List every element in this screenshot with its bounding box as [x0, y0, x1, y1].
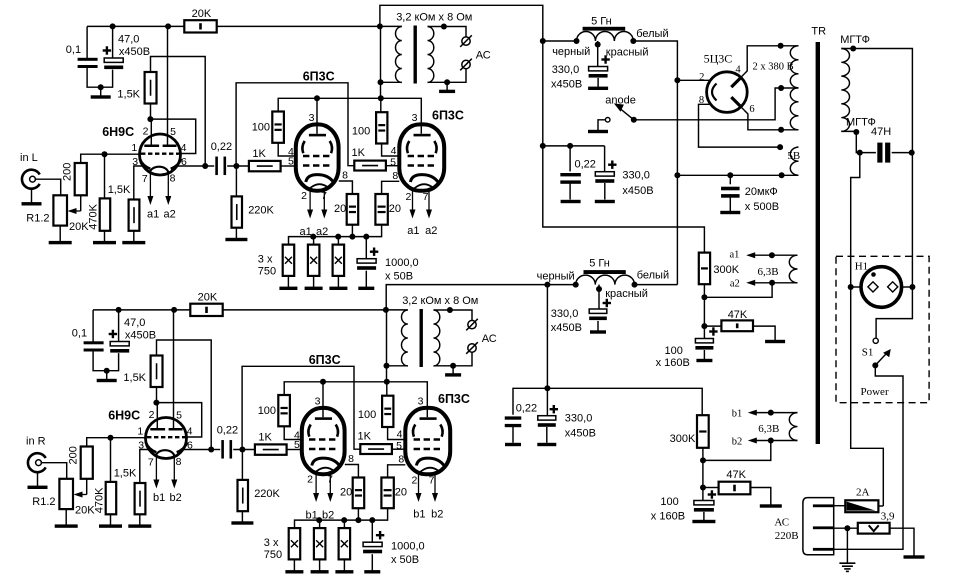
ground 470K L — [93, 241, 116, 244]
6П3С left L heater lead 7 — [323, 191, 325, 213]
svg-text:220K: 220K — [248, 205, 274, 217]
ground pot R — [55, 524, 78, 527]
junction coupling in L — [202, 163, 208, 169]
6П3С right L control grid dashed — [408, 164, 437, 167]
wire 0,22 psu1 top — [569, 146, 571, 172]
6П3С left L heater arc — [310, 184, 329, 188]
svg-text:330,0: 330,0 — [565, 412, 593, 424]
resistor 100 left L — [272, 112, 284, 143]
svg-text:b2: b2 — [732, 436, 743, 447]
6П3С right R anode side arcs — [413, 425, 415, 437]
svg-text:330,0: 330,0 — [552, 64, 580, 76]
wire B+ rail R — [93, 309, 190, 311]
svg-text:R1.2: R1.2 — [32, 496, 55, 508]
wire а2 to bias node — [704, 283, 772, 298]
svg-text:8: 8 — [348, 453, 354, 465]
wire 330 psu4 bottom — [546, 427, 548, 443]
wire 1.5K cathode to ground L — [133, 231, 135, 243]
svg-text:черный: черный — [552, 46, 590, 58]
svg-text:3,9: 3,9 — [881, 511, 895, 523]
wire OT secondary bottom R — [434, 352, 473, 366]
wire 100 right top L — [380, 98, 382, 112]
6П3С right R anode plate — [420, 417, 437, 420]
svg-text:1,5K: 1,5K — [108, 184, 131, 196]
6Н9С L anode plates — [144, 145, 159, 148]
svg-text:2: 2 — [307, 474, 313, 486]
junction B+ upper at caps — [540, 143, 546, 149]
svg-text:47,0: 47,0 — [118, 33, 139, 45]
junction cathode bus x338 R — [341, 517, 347, 523]
svg-text:7: 7 — [429, 474, 435, 486]
resistor 750 #2 L — [308, 245, 320, 276]
junction choke1 red tap — [595, 42, 601, 48]
wire pin8 5Ц3С — [699, 104, 781, 147]
resistor 20 right R — [381, 478, 393, 509]
svg-text:х 500В: х 500В — [745, 201, 779, 213]
svg-text:АС: АС — [476, 49, 491, 61]
wire OT secondary ground stem L — [446, 82, 448, 90]
wire pin2 5Ц3С — [677, 79, 710, 81]
resistor 1K right R — [360, 444, 392, 454]
junction lamp left — [848, 284, 854, 290]
choke2 core bar — [584, 270, 626, 274]
terminal choke1 black — [574, 38, 580, 44]
svg-text:3,2 кОм х 8 Ом: 3,2 кОм х 8 Ом — [402, 295, 478, 307]
wire 220K ground L — [235, 228, 237, 240]
junction grid node R — [108, 435, 114, 441]
6Н9С R grids dashed — [147, 436, 186, 438]
speaker terminal АС2 R — [468, 344, 476, 352]
wire anode switch to HV center tap — [634, 88, 799, 120]
anode switch contact — [605, 118, 610, 123]
svg-text:20K: 20K — [198, 292, 218, 304]
resistor 300K lower — [697, 415, 709, 448]
wire 20 left to bus R — [357, 508, 359, 520]
wire 100 left to screen R — [284, 426, 302, 439]
capacitor 0,22 psu2 — [505, 416, 522, 419]
resistor 47K upper — [721, 320, 753, 331]
triode tube 6Н9С L envelope — [140, 134, 181, 175]
wire cathode left to 20 R — [345, 465, 359, 478]
junction OT secondary ground R — [450, 363, 456, 369]
6П3С left L screen grid dashed — [303, 155, 332, 158]
wire choke1 red tap — [597, 41, 599, 67]
svg-text:5В: 5В — [787, 150, 800, 162]
OT core R — [420, 309, 423, 367]
resistor 1,5K anode L — [145, 72, 157, 104]
resistor 200 R — [81, 447, 93, 479]
wire 0,22 to node L — [227, 165, 249, 167]
plug pin 3 — [813, 548, 835, 551]
svg-text:4: 4 — [391, 145, 397, 157]
OT primary winding R — [402, 310, 408, 366]
wire 47K upper left — [704, 325, 721, 327]
wire 0,22 to node R — [233, 449, 255, 451]
svg-text:8: 8 — [342, 170, 348, 182]
6П3С left R anode side arcs — [308, 425, 310, 437]
svg-text:5: 5 — [390, 156, 396, 168]
junction cathode bus x366 L — [363, 234, 369, 240]
wire 100 left to screen L — [278, 143, 296, 156]
svg-text:b1: b1 — [732, 408, 743, 419]
wire 0,22 psu2 bottom — [512, 425, 514, 442]
svg-text:x450В: x450В — [622, 185, 653, 197]
wire 330 psu3 ground stem — [597, 321, 599, 331]
wire pot R bottom to ground — [65, 509, 67, 526]
ground 0,22 psu1 — [561, 200, 581, 203]
wire pin2 chassis stem — [846, 528, 848, 563]
svg-text:x450В: x450В — [551, 322, 582, 334]
svg-text:1000,0: 1000,0 — [385, 257, 419, 269]
capacitor 0,22 psu1 — [560, 173, 581, 176]
junction cathode bus x352 L — [349, 234, 355, 240]
wire rail to 0,1 cap R — [92, 310, 94, 343]
wire choke2 red tap — [598, 285, 600, 309]
6Н9С R anode plates — [150, 428, 165, 431]
junction pin2 node — [844, 525, 850, 531]
junction OT primary bottom L — [378, 79, 384, 85]
junction anode switch — [631, 117, 637, 123]
wire 300K upper bottom — [703, 284, 705, 326]
ground 1000 cap R — [364, 570, 380, 573]
ground 3,9 — [904, 555, 925, 558]
junction rail pin5 L — [165, 23, 171, 29]
wire pin6 5Ц3С to HV bottom — [744, 110, 798, 130]
wire 20мкФ bottom — [729, 194, 731, 211]
svg-text:a2: a2 — [730, 278, 740, 289]
svg-text:x450В: x450В — [551, 79, 582, 91]
svg-text:200: 200 — [62, 163, 74, 181]
wire grid node to pin1 L — [105, 153, 140, 155]
6П3С right L screen grid dashed — [408, 155, 437, 158]
speaker terminal АС1 L — [462, 37, 470, 45]
svg-text:2: 2 — [699, 72, 704, 83]
svg-text:100: 100 — [660, 496, 678, 508]
wire anode bus L — [278, 98, 421, 134]
chassis ground hatched — [839, 562, 855, 564]
terminal b2 — [768, 438, 774, 444]
svg-text:470K: 470K — [94, 487, 106, 513]
svg-text:S1: S1 — [862, 347, 874, 359]
svg-text:2: 2 — [405, 191, 411, 203]
svg-text:7: 7 — [142, 173, 148, 185]
junction OT secondary ground L — [444, 79, 450, 85]
wire 47K lower left — [703, 487, 719, 489]
junction cathode bus x313 R — [316, 517, 322, 523]
svg-text:4: 4 — [187, 425, 193, 437]
6П3С left R heater arc — [316, 468, 335, 472]
terminal choke1 white — [630, 38, 636, 44]
junction OT secondary top L — [441, 24, 447, 30]
junction rail cap R — [116, 307, 122, 313]
6П3С left L anode side arcs — [302, 141, 304, 153]
wire OT vertical R — [386, 310, 388, 382]
svg-text:АС: АС — [774, 517, 789, 529]
junction rail cap L — [110, 23, 116, 29]
wire fuse left lead — [835, 505, 846, 507]
ground anode switch — [588, 130, 608, 133]
ground caps L — [91, 95, 111, 98]
capacitor 0,22 coupling R — [221, 440, 224, 459]
resistor 470K R — [106, 482, 117, 514]
junction bias lower b — [700, 485, 706, 491]
svg-text:3 x: 3 x — [258, 253, 273, 265]
svg-text:330,0: 330,0 — [622, 170, 650, 182]
resistor 750 #2 R — [314, 528, 326, 559]
resistor 1,5K anode R — [151, 356, 163, 388]
svg-text:47,0: 47,0 — [124, 317, 145, 329]
resistor 100 right R — [382, 396, 393, 427]
svg-text:a1: a1 — [407, 225, 419, 237]
ground 1.5K cathode L — [122, 241, 145, 244]
choke1 5Гн winding — [577, 31, 634, 41]
svg-text:20: 20 — [340, 487, 352, 499]
6П3С right L anode side arcs — [407, 141, 409, 153]
capacitor 100 х160В lower — [694, 501, 714, 505]
svg-text:470K: 470K — [88, 203, 100, 229]
terminal primary top — [850, 46, 856, 52]
capacitor 100 х160В upper — [695, 339, 713, 343]
pentode tube 6П3С left R envelope — [302, 408, 345, 474]
wire 330 psu4 top — [546, 388, 548, 415]
wire 1000 cap bottom L — [365, 271, 367, 287]
pentode tube 6П3С right L envelope — [399, 124, 444, 190]
junction B+ lower at choke — [544, 282, 550, 288]
terminal b1 — [768, 410, 774, 416]
fuse 2А — [845, 500, 878, 512]
resistor 1K right L — [354, 161, 386, 171]
svg-text:100: 100 — [252, 122, 270, 134]
capacitor 47,0 x450В L — [104, 58, 123, 62]
wire 100 right to screen L — [382, 144, 400, 157]
ground 220K L — [225, 238, 247, 241]
junction rail OT R — [383, 307, 389, 313]
wire OT primary top lead R — [386, 309, 408, 311]
svg-text:x450В: x450В — [119, 46, 150, 58]
wire OT vertical L — [380, 26, 382, 98]
wire choke2 feed — [547, 284, 575, 286]
wire 300K lower bottom — [702, 448, 704, 501]
6Н9С L cathodes — [140, 159, 151, 169]
svg-text:7: 7 — [423, 191, 429, 203]
wire 200 bottom to wiper R — [86, 479, 88, 495]
capacitor 47Н — [877, 143, 882, 163]
wire jack L ground stem — [31, 189, 33, 204]
svg-text:белый: белый — [637, 270, 669, 282]
ground 330 psu3 — [590, 330, 606, 333]
wire 1.5K anode top to coupling L — [151, 57, 206, 167]
svg-text:3 x: 3 x — [264, 537, 279, 549]
wire OT secondary top L — [428, 27, 467, 37]
wire caps ground stem L — [100, 87, 102, 97]
wire 1K right to pin5 R — [392, 448, 406, 450]
svg-text:x450В: x450В — [125, 329, 156, 341]
6П3С left R cathode arc — [312, 458, 340, 466]
terminal 5В bottom — [779, 172, 785, 178]
svg-text:0,22: 0,22 — [516, 402, 537, 414]
anode switch arm with arrow — [619, 107, 634, 120]
svg-text:0,22: 0,22 — [211, 141, 232, 153]
6П3С left L control grid dashed — [303, 164, 332, 167]
wire 20 right to bus R — [295, 508, 388, 528]
junction rectifier B+ pin2 — [674, 77, 680, 83]
wire rail to 47,0 cap R — [118, 310, 120, 342]
ground 220K R — [231, 521, 253, 524]
svg-text:МГТФ: МГТФ — [840, 34, 870, 46]
wire anode1 to grid2 R — [156, 403, 201, 437]
ground 330 psu2 — [595, 200, 615, 203]
wire 5В bottom lead — [677, 174, 798, 176]
resistor 220K R — [238, 480, 249, 511]
6П3С right L heater lead 7 — [428, 191, 430, 213]
wire 47K lower right — [750, 488, 770, 505]
6Н9С R heater lead pin7 — [155, 457, 157, 483]
6Н9С L heater lead pin8 — [167, 173, 169, 199]
wire 330 psu2 top — [604, 146, 606, 172]
svg-text:АС: АС — [482, 333, 497, 345]
OT core L — [414, 26, 417, 84]
wire jack R to pot — [41, 463, 66, 479]
wire 20мкФ top — [729, 175, 731, 184]
svg-text:in L: in L — [20, 152, 38, 164]
wire left anode drop R — [322, 382, 324, 418]
svg-text:3: 3 — [138, 439, 144, 451]
junction anode1 node R — [153, 400, 159, 406]
ground 750 #2 R — [311, 570, 329, 573]
wire grid node down L — [104, 154, 106, 198]
ground jack L — [22, 202, 42, 205]
terminal HV center tap — [778, 85, 784, 91]
wire coupling to right tube R — [242, 366, 360, 449]
wire 1.5K anode top to coupling R — [157, 340, 212, 450]
svg-text:5 Гн: 5 Гн — [591, 15, 612, 27]
junction anode bus OT R — [384, 379, 390, 385]
junction psu caps upper — [567, 143, 573, 149]
svg-text:3: 3 — [418, 395, 424, 407]
wire anode contact to ground — [598, 120, 605, 131]
ground 330 psu1 — [588, 87, 608, 90]
terminal choke2 black — [573, 282, 579, 288]
junction B+ lower at caps — [544, 385, 550, 391]
wire rail to 0,1 cap L — [86, 26, 88, 59]
ground 750 #1 R — [285, 570, 303, 573]
wire 750 #1 bottom L — [287, 276, 289, 287]
ground 330 psu4 — [537, 443, 556, 446]
wire а2 heater line — [751, 282, 797, 284]
ground 100 cap lower — [692, 520, 715, 523]
svg-text:8: 8 — [170, 172, 176, 184]
wire OT secondary ground stem R — [452, 366, 454, 374]
junction OT secondary top R — [447, 307, 453, 313]
svg-text:2А: 2А — [856, 487, 870, 499]
junction 47Н right — [909, 150, 915, 156]
svg-text:х 160В: х 160В — [656, 357, 690, 369]
capacitor 0,1 L — [78, 58, 98, 61]
TR primary МГТФ winding — [841, 49, 849, 132]
ground pot L — [49, 241, 72, 244]
junction cathode bus x366 R — [369, 517, 375, 523]
svg-text:3: 3 — [315, 396, 321, 408]
svg-text:x 50В: x 50В — [385, 270, 413, 282]
svg-text:6Н9С: 6Н9С — [108, 409, 140, 423]
6П3С left L heater lead 2 — [309, 191, 311, 213]
RCA input jack in L — [22, 170, 40, 189]
6Н9С R cathodes — [146, 442, 157, 452]
wire lamp left down to fuse — [851, 287, 884, 506]
wire OT primary top lead L — [380, 25, 402, 27]
junction cathode bus x352 R — [355, 517, 361, 523]
wire 1K to pin5 left 6П3С R — [287, 449, 302, 451]
resistor 20K rail L — [184, 20, 216, 32]
junction after coupling L — [233, 163, 239, 169]
wire 100 cap upper stem — [703, 326, 705, 338]
OT secondary winding R — [434, 310, 440, 366]
resistor 300K upper — [699, 253, 710, 285]
junction coupling in R — [208, 447, 214, 453]
6Н9С L grids dashed — [141, 152, 180, 154]
junction bias upper b — [701, 323, 707, 329]
wire 750 #3 top L — [337, 237, 339, 245]
terminal choke2 white — [632, 282, 638, 288]
svg-text:х450В: х450В — [565, 428, 596, 440]
svg-text:100: 100 — [358, 409, 376, 421]
svg-text:b1: b1 — [413, 509, 425, 521]
wire pin3 to 1.5K R — [140, 450, 149, 484]
svg-text:0,1: 0,1 — [72, 327, 87, 339]
svg-text:20K: 20K — [75, 504, 95, 516]
resistor 3,9 fusible — [858, 523, 890, 534]
resistor 750 #1 R — [289, 528, 301, 559]
wire jack R ground stem — [37, 472, 39, 487]
resistor 47K lower — [719, 482, 751, 495]
terminal 5В top — [777, 144, 783, 150]
wire OT primary bottom lead R — [387, 365, 408, 367]
svg-text:a1: a1 — [147, 208, 159, 220]
wire 750 #3 top R — [343, 520, 345, 528]
svg-text:0,22: 0,22 — [217, 424, 238, 436]
junction anode bus left R — [320, 379, 326, 385]
capacitor 1000,0 x50В L — [357, 259, 376, 263]
ground OT secondary L — [439, 90, 455, 93]
svg-text:2: 2 — [301, 190, 307, 202]
svg-text:красный: красный — [605, 288, 648, 300]
svg-text:х 160В: х 160В — [651, 511, 685, 523]
wire 470K to ground R — [110, 514, 112, 526]
wire 200 to grid node R — [87, 438, 111, 447]
svg-text:a1: a1 — [730, 249, 740, 260]
capacitor 330,0 x450В psu4 — [538, 416, 556, 420]
svg-text:красный: красный — [606, 47, 649, 59]
ground 470K R — [99, 524, 122, 527]
resistor 20 left R — [353, 478, 365, 509]
potentiometer R1.2 R 20K — [59, 479, 73, 509]
capacitor 0,1 R — [84, 341, 104, 344]
svg-text:1,5K: 1,5K — [123, 372, 146, 384]
svg-text:220В: 220В — [775, 530, 799, 542]
ground 47K lower — [760, 504, 782, 507]
wiper arrow R1.2 R — [78, 494, 87, 496]
wire 750 #2 bottom L — [313, 276, 315, 287]
svg-text:220K: 220K — [254, 488, 280, 500]
switch S1 contact — [873, 338, 878, 343]
6П3С right R control grid dashed — [414, 448, 443, 451]
wire pin5 anode to rail R — [173, 310, 175, 429]
ground 750 #2 L — [305, 287, 323, 290]
terminal а2 — [769, 280, 775, 286]
svg-text:47K: 47K — [728, 309, 748, 321]
pentode tube 6П3С left L envelope — [296, 124, 339, 190]
wire node to 220K R — [241, 450, 243, 480]
